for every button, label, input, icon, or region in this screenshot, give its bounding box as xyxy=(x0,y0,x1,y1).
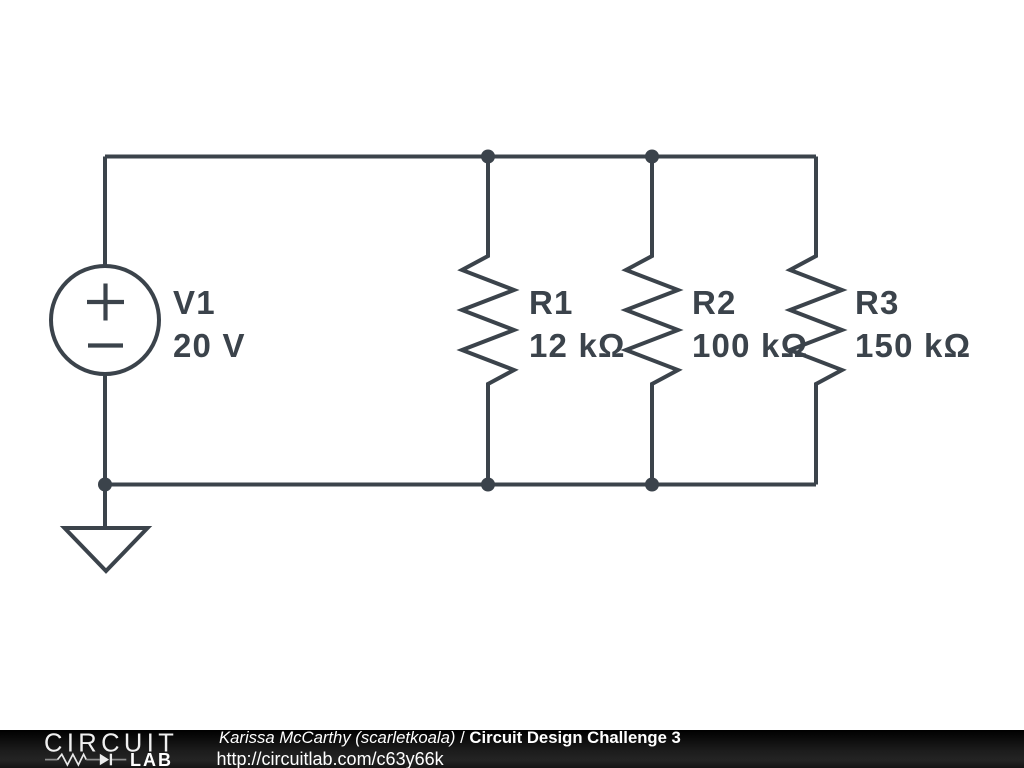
voltage source V1 xyxy=(51,266,159,374)
svg-text:12 kΩ: 12 kΩ xyxy=(529,327,626,364)
wire bottom net xyxy=(105,483,816,487)
wire V1 bottom lead xyxy=(103,374,107,485)
svg-text:150 kΩ: 150 kΩ xyxy=(855,327,971,364)
node dot top R1 xyxy=(481,150,495,164)
ground xyxy=(103,485,107,529)
logo resistor-diode symbol xyxy=(45,754,126,765)
wire left vertical to V1 xyxy=(103,157,107,267)
node dot top R2 xyxy=(645,150,659,164)
svg-text:V1: V1 xyxy=(173,284,216,321)
svg-text:Karissa McCarthy (scarletkoala: Karissa McCarthy (scarletkoala) / Circui… xyxy=(219,728,681,747)
resistor R3 xyxy=(790,157,842,485)
wire top net xyxy=(105,155,816,159)
resistor R1 xyxy=(462,157,514,485)
node dot bottom gnd xyxy=(98,478,112,492)
svg-text:R3: R3 xyxy=(855,284,900,321)
resistor R2 xyxy=(626,157,678,485)
logo diode xyxy=(100,754,109,766)
svg-text:LAB: LAB xyxy=(130,750,173,768)
node dot bottom R2 xyxy=(645,478,659,492)
svg-text:20 V: 20 V xyxy=(173,327,246,364)
svg-text:http://circuitlab.com/c63y66k: http://circuitlab.com/c63y66k xyxy=(217,749,445,768)
svg-text:100 kΩ: 100 kΩ xyxy=(692,327,808,364)
node dot bottom R1 xyxy=(481,478,495,492)
svg-text:R2: R2 xyxy=(692,284,737,321)
svg-text:R1: R1 xyxy=(529,284,574,321)
